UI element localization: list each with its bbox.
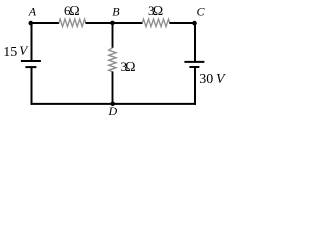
wire left A down to battery bbox=[31, 23, 33, 62]
svg-text:Ω: Ω bbox=[153, 4, 163, 19]
wire top A to 6ohm resistor bbox=[31, 22, 60, 24]
node B bbox=[110, 21, 115, 26]
battery 15 V long plate bbox=[21, 60, 41, 62]
resistor 6ohm (A-B) zigzag bbox=[59, 19, 86, 27]
node A bbox=[29, 21, 34, 26]
svg-text:V: V bbox=[216, 72, 226, 87]
wire middle 3ohm to D bbox=[112, 72, 114, 105]
wire top 6ohm to B bbox=[86, 22, 113, 24]
battery 30 V long plate bbox=[184, 61, 204, 63]
svg-text:C: C bbox=[197, 5, 206, 19]
svg-text:Ω: Ω bbox=[125, 60, 135, 75]
svg-text:Ω: Ω bbox=[69, 4, 79, 19]
svg-text:D: D bbox=[108, 104, 118, 118]
node C bbox=[192, 21, 197, 26]
wire middle B down to 3ohm resistor bbox=[112, 23, 114, 48]
svg-text:B: B bbox=[112, 5, 120, 19]
battery 30 V short plate bbox=[189, 66, 199, 68]
wire bottom bbox=[31, 103, 197, 105]
battery 15 V short plate bbox=[25, 66, 36, 68]
wire right C down to battery bbox=[194, 23, 196, 62]
resistor 3ohm (B-C) zigzag bbox=[142, 19, 169, 27]
wire top 3ohm to C bbox=[169, 22, 195, 24]
svg-text:15: 15 bbox=[3, 45, 17, 60]
svg-text:30: 30 bbox=[199, 72, 213, 87]
resistor 3ohm (B-D) zigzag bbox=[109, 48, 116, 72]
wire left battery down to bottom bbox=[31, 67, 33, 105]
svg-text:A: A bbox=[28, 4, 37, 18]
node D bbox=[110, 102, 115, 107]
wire top B to 3ohm resistor bbox=[113, 22, 143, 24]
wire right battery down to bottom bbox=[194, 67, 196, 105]
